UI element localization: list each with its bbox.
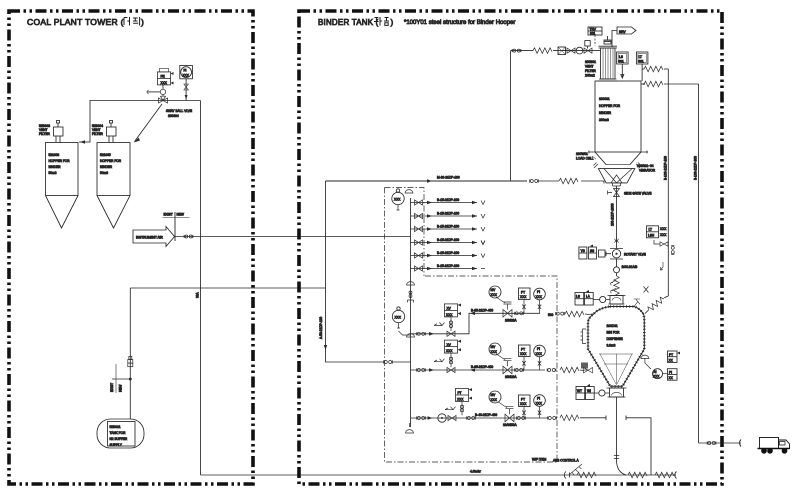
svg-text:521005: 521005 bbox=[100, 153, 111, 157]
svg-text:XXX: XXX bbox=[491, 398, 498, 402]
svg-text:3WAY BALL VLVE: 3WAY BALL VLVE bbox=[166, 109, 192, 113]
svg-text:BIN FOR: BIN FOR bbox=[607, 331, 621, 335]
w/f item dashed enclosure bbox=[385, 188, 558, 463]
breather dome below bottom bbox=[406, 430, 414, 433]
svg-text:10N20A: 10N20A bbox=[505, 319, 517, 323]
bin internal cone lines bbox=[599, 354, 633, 385]
right instrument box upper bbox=[668, 351, 681, 363]
air supply arrow B bbox=[434, 359, 445, 362]
solenoid valve box XV C bbox=[456, 389, 469, 402]
svg-text:100R01~04: 100R01~04 bbox=[637, 164, 654, 168]
LSH top-left boxes bbox=[575, 290, 593, 305]
svg-text:XXX: XXX bbox=[520, 295, 527, 299]
EXIST/NEW boundary marker at instrument air bbox=[163, 212, 190, 241]
svg-text:VIBRATOR: VIBRATOR bbox=[639, 169, 656, 173]
svg-text:50m3: 50m3 bbox=[100, 171, 108, 175]
N2 riser pipe in binder tank bbox=[326, 181, 385, 362]
control valve B bbox=[496, 354, 517, 380]
LS instrument box bbox=[617, 52, 629, 78]
svg-text:B-15-21DP-100: B-15-21DP-100 bbox=[437, 238, 459, 242]
top-left valve circle bbox=[600, 296, 606, 302]
flange on header bbox=[530, 179, 539, 182]
breather dome on manifold top bbox=[405, 190, 413, 193]
svg-text:LT: LT bbox=[639, 55, 643, 59]
svg-text:XXX: XXX bbox=[536, 352, 543, 356]
svg-text:): ) bbox=[391, 18, 394, 27]
PI circle B bbox=[534, 345, 546, 357]
flex hose bottom 2 bbox=[628, 472, 647, 478]
filter feed pipe bbox=[511, 50, 534, 52]
exit B to bin with flex bbox=[547, 368, 556, 371]
flex hose hopper to loading line bbox=[643, 83, 645, 85]
pipe: diagonal to hopper2 with arrow bbox=[135, 104, 163, 142]
recycle flex from bin shoulder to riser bbox=[645, 310, 649, 314]
svg-text:EXIST: EXIST bbox=[110, 383, 114, 392]
blower circle C bbox=[438, 414, 446, 422]
rotary valve motor symbols bbox=[599, 250, 612, 257]
hopper 521003 body bbox=[46, 143, 79, 196]
svg-text:001: 001 bbox=[619, 60, 625, 64]
hopper 521005 cone bbox=[97, 196, 130, 229]
svg-text:XX: XX bbox=[669, 359, 674, 363]
svg-text:LS: LS bbox=[576, 295, 580, 299]
header continues with flex to hopper discharge bbox=[539, 180, 560, 182]
svg-text:NEW: NEW bbox=[119, 385, 123, 392]
bin shell with lining hatch bbox=[588, 307, 644, 387]
svg-text:BINDER TANK (: BINDER TANK ( bbox=[318, 18, 379, 27]
positioner circle MV B bbox=[489, 343, 501, 355]
svg-text:): ) bbox=[141, 17, 144, 27]
svg-text:FT: FT bbox=[458, 391, 462, 395]
svg-text:XXX: XXX bbox=[491, 293, 498, 297]
rotameter circle on dashed border bbox=[392, 307, 410, 335]
hand valve circle on stub bbox=[160, 89, 165, 94]
svg-text:XXX: XXX bbox=[653, 375, 660, 379]
svg-text:3.0m3: 3.0m3 bbox=[607, 344, 616, 348]
N2 pipe to binder tank bbox=[130, 287, 325, 289]
svg-text:PI: PI bbox=[537, 290, 540, 294]
air supply arrow C bbox=[445, 407, 456, 410]
pipe run A lower bbox=[411, 313, 541, 334]
dispense air line right section with break ticks bbox=[580, 416, 651, 476]
svg-text:PT: PT bbox=[521, 398, 525, 402]
hopper bottom flange ticks bbox=[588, 151, 648, 154]
control valve A with actuator bbox=[496, 297, 517, 323]
aeration arrow bbox=[661, 262, 664, 270]
svg-text:001: 001 bbox=[590, 32, 596, 36]
recycle vertical pipe bbox=[667, 69, 669, 296]
inline basket strainer bbox=[558, 47, 566, 55]
loading vertical pipe bbox=[698, 84, 700, 443]
svg-text:FE: FE bbox=[161, 75, 165, 79]
svg-text:FILTER: FILTER bbox=[39, 132, 50, 136]
valve on feed 2 bbox=[584, 48, 592, 53]
svg-text:A-50-21DP-100: A-50-21DP-100 bbox=[319, 317, 323, 339]
flange on feed to manifold bbox=[384, 360, 393, 363]
svg-text:B-15-21DP-100: B-15-21DP-100 bbox=[437, 264, 459, 268]
flange after valve C bbox=[517, 416, 526, 419]
svg-text:FILTER: FILTER bbox=[92, 132, 103, 136]
instrument stem to line bbox=[162, 85, 164, 89]
right vent dome on bin bbox=[641, 355, 649, 358]
3way ball valve 100604 bbox=[159, 96, 168, 103]
bottom conveying pipe bbox=[201, 474, 566, 476]
svg-text:10N20A: 10N20A bbox=[505, 375, 517, 379]
binder tank boundary (dashed) bbox=[299, 11, 722, 484]
flex drop to bin inlet bbox=[616, 273, 618, 276]
svg-text:DISPENSE: DISPENSE bbox=[607, 337, 623, 341]
svg-text:XV: XV bbox=[447, 307, 452, 311]
svg-text:LS: LS bbox=[619, 55, 623, 59]
purge branch 2 bbox=[411, 212, 486, 219]
purge branch 4 bbox=[411, 238, 486, 245]
solenoid stem with flanges bbox=[450, 317, 452, 331]
svg-text:NRV: NRV bbox=[619, 30, 627, 34]
small valve on drop bbox=[615, 239, 619, 243]
exit C to bin discharge with flex bbox=[548, 416, 557, 419]
svg-text:BINDER: BINDER bbox=[49, 165, 62, 169]
flow arrow down on riser bbox=[324, 345, 327, 350]
vent filter 52B003 bbox=[54, 121, 64, 143]
purge branch 1 bbox=[411, 198, 486, 205]
svg-text:*100Y01 steel structure for: *100Y01 steel structure for Binder Hoope… bbox=[404, 20, 515, 26]
bin manhole bracket bbox=[581, 329, 587, 344]
pressure tap square bbox=[585, 41, 590, 46]
slide gate valve bbox=[616, 186, 618, 249]
svg-text:B-15-21DP-100: B-15-21DP-100 bbox=[437, 251, 459, 255]
flange after valve B bbox=[515, 368, 524, 371]
svg-text:VENT: VENT bbox=[585, 65, 594, 69]
exist/new marker on N2 riser bbox=[110, 364, 131, 393]
svg-text:XXX: XXX bbox=[536, 402, 543, 406]
svg-text:XXX: XXX bbox=[394, 198, 401, 202]
pipe: stub into hopper1 with arrow bbox=[79, 141, 90, 143]
PT square C bbox=[519, 395, 531, 407]
valve on feed bbox=[567, 48, 575, 53]
svg-text:50m3: 50m3 bbox=[49, 171, 57, 175]
INSTRUMENT AIR source arrow box bbox=[133, 227, 175, 247]
svg-text:COAL PLANT TOWER (: COAL PLANT TOWER ( bbox=[27, 17, 124, 27]
bin outlet feeder bbox=[607, 388, 627, 397]
svg-text:WT: WT bbox=[577, 389, 582, 393]
svg-text:W/F ITEM: W/F ITEM bbox=[532, 458, 547, 462]
svg-text:100001: 100001 bbox=[599, 97, 610, 101]
hopper 100001 body bbox=[595, 81, 641, 152]
discharge chain below rotary bbox=[616, 259, 618, 267]
svg-text:XXX: XXX bbox=[660, 227, 667, 231]
small relief on bin top right bbox=[634, 299, 640, 307]
level chamber circle bbox=[614, 267, 620, 273]
riser to filter feed line bbox=[510, 51, 512, 181]
svg-text:BINDER: BINDER bbox=[100, 165, 113, 169]
svg-text:30A: 30A bbox=[196, 291, 200, 298]
pipe to manifold vertical bbox=[393, 361, 411, 363]
bin activator bbox=[594, 163, 642, 183]
upper-left nozzle from line A bbox=[589, 313, 594, 316]
instrument FE double box bbox=[158, 72, 171, 85]
purge branch 3 bbox=[411, 225, 486, 232]
truck loading pipe bbox=[699, 442, 742, 444]
svg-text:B-100-21DP-100: B-100-21DP-100 bbox=[664, 156, 668, 180]
svg-text:MV: MV bbox=[491, 288, 497, 292]
svg-text:XXX: XXX bbox=[446, 313, 453, 317]
svg-text:001: 001 bbox=[638, 60, 644, 64]
svg-text:100L01A/B: 100L01A/B bbox=[622, 265, 638, 269]
svg-text:B-15-21DP-100: B-15-21DP-100 bbox=[437, 225, 459, 229]
truck bbox=[758, 438, 790, 454]
coupling on bottom pipe bbox=[564, 472, 569, 479]
svg-text:INSTRUMENT AIR: INSTRUMENT AIR bbox=[136, 236, 164, 240]
AI analyser circle bbox=[653, 369, 663, 379]
sight glass circle bbox=[576, 47, 583, 54]
svg-text:XXX: XXX bbox=[457, 397, 464, 401]
breather dome mid manifold bbox=[407, 282, 415, 285]
instrument FI circle-in-box bbox=[180, 66, 193, 79]
svg-text:HOPPER FOR: HOPPER FOR bbox=[100, 159, 122, 163]
flex hose hopper top to recycle line bbox=[642, 68, 644, 70]
flexible hose on header bbox=[559, 178, 578, 184]
bottom-left weigh boxes bbox=[576, 384, 594, 400]
svg-text:10AN50A: 10AN50A bbox=[503, 423, 518, 427]
svg-text:FI: FI bbox=[184, 69, 187, 73]
svg-text:NEW: NEW bbox=[177, 213, 184, 217]
NRV relief flag bbox=[612, 31, 617, 48]
flange below dome bbox=[409, 291, 412, 298]
coupling on drop bbox=[614, 456, 619, 459]
svg-text:FILTER: FILTER bbox=[585, 69, 596, 73]
drain valve to recycle line bbox=[654, 240, 660, 244]
svg-text:B-40-21DP-400: B-40-21DP-400 bbox=[475, 413, 497, 417]
svg-text:500: 500 bbox=[548, 313, 554, 317]
line valve C bbox=[448, 415, 456, 420]
svg-text:100604: 100604 bbox=[168, 114, 179, 118]
svg-text:TANK FOR: TANK FOR bbox=[110, 431, 127, 435]
breather dome lower manifold bbox=[407, 334, 415, 337]
vent valve X on recycle bbox=[644, 287, 649, 293]
svg-text:PI: PI bbox=[537, 397, 540, 401]
instrument air pipe to binder tank bbox=[175, 236, 412, 238]
svg-text:BINDER: BINDER bbox=[599, 111, 612, 115]
positioner circle MV C bbox=[489, 391, 501, 403]
TRV instrument box bbox=[588, 27, 602, 35]
svg-text:LSH: LSH bbox=[648, 234, 655, 238]
manifold vertical header bbox=[410, 198, 412, 427]
svg-text:LOAD CELL: LOAD CELL bbox=[576, 157, 594, 161]
svg-text:SS: SS bbox=[590, 249, 594, 253]
pipe: top header in coal box bbox=[90, 101, 201, 143]
svg-text:LT: LT bbox=[649, 228, 653, 232]
flex hose bottom 1 bbox=[577, 472, 596, 478]
svg-text:EXIST: EXIST bbox=[164, 213, 173, 217]
svg-text:WI: WI bbox=[587, 389, 591, 393]
control valve C bbox=[498, 402, 518, 428]
drop curve into conveying line bbox=[617, 460, 627, 475]
svg-text:4.0te/hr: 4.0te/hr bbox=[470, 470, 482, 474]
svg-text:XXX: XXX bbox=[660, 233, 667, 237]
N2 riser pipe bbox=[129, 288, 131, 419]
flange on instrument air pipe bbox=[184, 235, 193, 238]
flange after valve A bbox=[515, 312, 524, 315]
YS instrument boxes bbox=[579, 245, 597, 260]
conveying header M-80-21DP-100 bbox=[326, 180, 528, 182]
svg-text:100D01: 100D01 bbox=[607, 324, 618, 328]
svg-text:52B021: 52B021 bbox=[110, 425, 121, 429]
PDT small box left bbox=[581, 363, 588, 369]
vent filter 100B01 bbox=[598, 36, 618, 81]
purge branch 6 bbox=[411, 264, 486, 271]
svg-text:ROTARY VLVE: ROTARY VLVE bbox=[624, 253, 646, 257]
svg-text:PT: PT bbox=[521, 291, 525, 295]
hopper 521003 cone bbox=[46, 196, 79, 229]
PT square A bbox=[519, 288, 531, 300]
pipe run B bbox=[411, 369, 546, 371]
PI circle A bbox=[534, 288, 546, 300]
N2 buffer tank 52B021 bbox=[97, 419, 144, 448]
svg-text:PT: PT bbox=[521, 348, 525, 352]
hopper cone bbox=[595, 152, 641, 165]
svg-text:MV: MV bbox=[491, 345, 497, 349]
svg-text:XXX: XXX bbox=[395, 316, 402, 320]
svg-text:MV: MV bbox=[491, 393, 497, 397]
svg-text:HOPPER FOR: HOPPER FOR bbox=[49, 159, 71, 163]
line valve A bbox=[447, 331, 455, 336]
svg-text:AI: AI bbox=[654, 370, 657, 374]
svg-text:XXX: XXX bbox=[183, 74, 190, 78]
solenoid valve box XV bbox=[445, 304, 458, 317]
svg-text:521003: 521003 bbox=[49, 153, 60, 157]
LT/LSH hopper low boxes bbox=[647, 226, 668, 238]
svg-text:240m2: 240m2 bbox=[585, 74, 595, 78]
svg-text:XXX: XXX bbox=[536, 295, 543, 299]
solenoid valve box XV B bbox=[445, 340, 458, 353]
leader hatch to new item bbox=[570, 464, 582, 475]
rotary valve 100S01 bbox=[610, 249, 646, 260]
bin discharge drop pipe bbox=[616, 397, 618, 460]
bin inlet feeder box bbox=[608, 296, 626, 305]
svg-text:B-15-21DP-100: B-15-21DP-100 bbox=[437, 198, 459, 202]
purge branch 5 bbox=[411, 251, 486, 258]
svg-text:HOPPER FOR: HOPPER FOR bbox=[599, 104, 621, 108]
svg-text:YS: YS bbox=[581, 249, 585, 253]
PI circle C bbox=[534, 395, 546, 407]
line valve B bbox=[447, 367, 455, 372]
purge unit instrument circle bbox=[392, 189, 404, 210]
LT instrument box bbox=[636, 52, 648, 81]
svg-text:PT: PT bbox=[669, 353, 673, 357]
svg-text:B-100-21DP-300: B-100-21DP-300 bbox=[694, 156, 698, 180]
svg-text:100W01: 100W01 bbox=[576, 152, 588, 156]
svg-text:XXX: XXX bbox=[520, 402, 527, 406]
mid-left nozzle valve from line B bbox=[584, 368, 593, 373]
svg-text:N2 BUFFER: N2 BUFFER bbox=[110, 437, 128, 441]
svg-text:PI: PI bbox=[669, 371, 672, 375]
FI stem with valve and arrow bbox=[185, 79, 187, 101]
drain bracket bbox=[408, 300, 414, 303]
air supply arrow P->Y bbox=[434, 323, 445, 326]
right instrument box lower bbox=[663, 369, 678, 381]
bottom-left valve circle bbox=[599, 390, 605, 396]
svg-text:ABB CONTROL A: ABB CONTROL A bbox=[553, 459, 579, 463]
hopper 521005 body bbox=[97, 143, 130, 196]
vent filter 52B004 bbox=[107, 121, 117, 143]
svg-text:100-21DP-1000: 100-21DP-1000 bbox=[611, 203, 615, 226]
svg-text:XX: XX bbox=[669, 376, 674, 380]
long vertical new pipe x=200.5 bbox=[200, 101, 202, 476]
svg-text:M-80-21DP-100: M-80-21DP-100 bbox=[437, 176, 460, 180]
svg-text:XV: XV bbox=[447, 343, 452, 347]
svg-text:SUPPLY: SUPPLY bbox=[110, 443, 123, 447]
flex hose bottom 3 bbox=[655, 472, 674, 478]
pipe run C bbox=[411, 417, 549, 419]
bottom conveying pipe right section bbox=[565, 474, 676, 476]
svg-text:XXX: XXX bbox=[520, 352, 527, 356]
svg-text:200m3: 200m3 bbox=[599, 118, 609, 122]
svg-text:XXX: XXX bbox=[161, 81, 168, 85]
svg-text:B-15-21DP-100: B-15-21DP-100 bbox=[437, 212, 459, 216]
sampling branches bbox=[611, 280, 617, 293]
coal plant tower boundary (dashed) bbox=[9, 11, 253, 484]
flexible hose on feed bbox=[533, 48, 552, 54]
activator outlet bbox=[612, 183, 622, 186]
positioner circle MV A bbox=[489, 286, 501, 298]
svg-text:LA: LA bbox=[586, 295, 591, 299]
svg-text:PI: PI bbox=[537, 347, 540, 351]
svg-text:XXX: XXX bbox=[446, 349, 453, 353]
svg-text:SIDE GATE VALVE: SIDE GATE VALVE bbox=[624, 192, 651, 196]
svg-text:100B01: 100B01 bbox=[585, 60, 596, 64]
svg-text:XXX: XXX bbox=[491, 350, 498, 354]
PT square B bbox=[519, 345, 531, 357]
coupling on N2 riser bbox=[128, 357, 133, 367]
